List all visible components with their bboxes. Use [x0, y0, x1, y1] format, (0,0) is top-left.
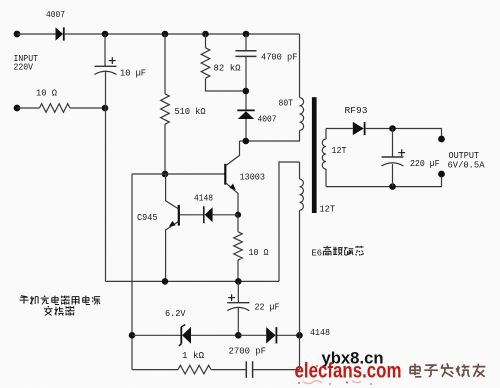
wire top rail to R3	[205, 34, 207, 48]
svg-text:22 µF: 22 µF	[255, 302, 280, 313]
label caption 手机充电器用电源 变换器	[20, 296, 101, 316]
wire R4 top lead	[237, 215, 239, 232]
wire top rail left segment	[17, 33, 56, 35]
svg-text:4148: 4148	[310, 327, 330, 338]
label 4700 pF (C2)	[261, 52, 298, 63]
svg-text:4007: 4007	[258, 114, 277, 125]
wire top-right corner down to primary	[299, 34, 301, 98]
svg-text:2700 pF: 2700 pF	[229, 346, 267, 357]
resistor R4 10 ohm emitter sense	[234, 232, 243, 260]
label 13003 (Q1)	[240, 172, 266, 183]
svg-text:10 µF: 10 µF	[120, 68, 146, 79]
svg-text:10 Ω: 10 Ω	[249, 247, 269, 258]
wire secondary bottom lead	[325, 169, 327, 187]
wire feedback winding top lead	[299, 162, 301, 179]
wire D2 to collector node	[245, 119, 247, 141]
core T1 ferrite bar	[312, 97, 317, 213]
label INPUT 220V	[14, 53, 39, 73]
wire base wire to Q1	[132, 173, 225, 175]
wire feedback winding bottom lead	[299, 210, 301, 335]
diode D4 1N4148 base clamp	[204, 206, 213, 223]
watermark 电子发烧友	[410, 363, 485, 377]
wire D3 to output top corner	[365, 129, 442, 140]
node junction C945 emitter on rail	[162, 278, 169, 285]
node junction C5 top	[389, 125, 396, 132]
transistor Q1 13003 switch	[225, 141, 239, 215]
label 1 kΩ (R5)	[182, 350, 204, 361]
label 4148 (D4)	[194, 193, 213, 204]
resistor R5 1k feedback	[178, 365, 211, 374]
label RF93 (D3)	[345, 105, 368, 116]
svg-text:E6: E6	[312, 248, 323, 259]
capacitor C2 4700pF snubber	[236, 51, 257, 57]
wire feedback column	[299, 335, 301, 369]
svg-text:elecfans.com: elecfans.com	[295, 359, 402, 383]
wire primary bottom to corner	[299, 130, 301, 141]
transistor Q2 C945 regulator	[166, 174, 179, 281]
svg-text:4007: 4007	[46, 9, 65, 20]
svg-text:6V/0.5A: 6V/0.5A	[448, 160, 485, 171]
svg-text:220V: 220V	[14, 62, 34, 73]
winding T1 feedback 12T	[300, 179, 304, 210]
capacitor C4 2700pF feedback	[246, 361, 252, 378]
node junction top rail at R2 column	[162, 31, 169, 38]
wire top rail to R2	[164, 34, 166, 94]
wire branch down-left corner to R5	[132, 369, 178, 371]
watermark ybx8.cn	[322, 350, 384, 368]
svg-text:80T: 80T	[279, 98, 294, 109]
wire C3 node to D5	[238, 334, 266, 336]
wire D4 to Q2 base	[180, 214, 203, 216]
wire R2 to base node	[164, 124, 166, 174]
wire top rail from D1 to top-right corner	[64, 33, 300, 35]
label 80T	[279, 98, 294, 109]
diode D2 1N4007 clamp	[237, 110, 254, 119]
wire C1 column upper	[104, 34, 106, 66]
wire secondary top to D3	[326, 128, 353, 130]
wire C1 column down to common rail	[105, 72, 107, 282]
node output terminal minus	[438, 171, 445, 178]
wire R5 to C4	[211, 369, 246, 371]
watermark elecfans.com	[295, 359, 402, 383]
wire C3 to zener rail	[237, 308, 239, 336]
svg-text:1 kΩ: 1 kΩ	[182, 350, 204, 361]
wire rail to C3	[237, 281, 239, 302]
node junction R1 / C1 column	[102, 105, 109, 112]
wire input bottom lead	[17, 107, 40, 109]
svg-text:4700 pF: 4700 pF	[261, 52, 298, 63]
wire common rail up to feedback winding top	[279, 162, 300, 281]
label OUTPUT 6V/0.5A	[448, 150, 485, 171]
winding T1 primary 80T	[300, 98, 304, 131]
label 10 Ω (R4)	[249, 247, 269, 258]
wire base node down to feedback network	[131, 174, 133, 370]
node input terminal bottom	[14, 105, 21, 112]
svg-text:10 Ω: 10 Ω	[36, 88, 57, 99]
node output terminal plus	[438, 136, 445, 143]
label + polarity of C3	[228, 294, 235, 301]
wire secondary bottom rail	[326, 174, 442, 187]
label + polarity of C5	[398, 149, 405, 156]
label 22 µF (C3)	[255, 302, 280, 313]
node junction collector node	[243, 138, 250, 145]
node junction base node	[162, 171, 169, 178]
label 2700 pF (C4)	[229, 346, 267, 357]
node input terminal top	[14, 31, 21, 38]
label 4148 (D5)	[310, 327, 330, 338]
node junction feedback winding node	[296, 332, 303, 339]
capacitor C5 220uF output filter	[382, 129, 404, 187]
svg-text:6.2V: 6.2V	[165, 308, 186, 319]
diode D1 1N4007 input rectifier	[56, 27, 64, 40]
wire collector node to primary winding bottom	[240, 140, 300, 142]
label E6 core 高频磁芯	[312, 246, 364, 259]
label 4007 (D2)	[258, 114, 277, 125]
svg-text:RF93: RF93	[345, 105, 368, 116]
wire C4 to right corner	[253, 369, 300, 371]
label + polarity of C1	[109, 57, 116, 64]
wire R3 bottom to snubber node	[206, 78, 246, 91]
label 6.2V (ZD1)	[165, 308, 186, 319]
winding T1 secondary 12T	[322, 139, 326, 169]
watermark flourish	[298, 365, 391, 385]
resistor R1 10 ohm fusible	[40, 104, 71, 113]
svg-text:510 kΩ: 510 kΩ	[175, 106, 206, 117]
node junction C3 bottom on zener rail	[235, 332, 242, 339]
wire common emitter rail	[106, 280, 280, 282]
wire emitter node wire to D4	[213, 214, 238, 216]
label C945 (Q2)	[137, 212, 158, 223]
label 82 kΩ (R3)	[214, 63, 241, 74]
resistor R3 82k snubber	[201, 48, 210, 78]
svg-text:220 µF: 220 µF	[410, 158, 440, 169]
node junction snubber node	[243, 88, 250, 95]
label 4007 (D1)	[46, 9, 65, 20]
capacitor C3 22uF	[227, 303, 249, 311]
label 220 µF (C5)	[410, 158, 440, 169]
svg-text:13003: 13003	[240, 172, 266, 183]
capacitor C1 10uF electrolytic	[95, 66, 117, 74]
node junction R4/C3 on rail	[235, 278, 242, 285]
node junction top rail at C2 column	[243, 31, 250, 38]
node junction C5 bottom	[389, 183, 396, 190]
svg-text:C945: C945	[137, 212, 158, 223]
label 510 kΩ (R2)	[175, 106, 206, 117]
wire D5 to feedback winding node	[276, 334, 299, 336]
svg-text:12T: 12T	[320, 204, 336, 215]
diode ZD1 6.2V zener	[179, 325, 191, 346]
wire zener rail left segment	[132, 334, 181, 336]
resistor R2 510k startup	[161, 94, 170, 124]
wire from R1 to bulk cap column	[70, 107, 105, 109]
label 10 Ω (R1)	[36, 88, 57, 99]
label 12T feedback	[320, 204, 336, 215]
wire secondary top lead	[325, 129, 327, 140]
node junction zener rail left	[129, 332, 136, 339]
svg-text:4148: 4148	[194, 193, 213, 204]
wire top rail to C2	[245, 34, 247, 51]
label 10 µF (C1)	[120, 68, 146, 79]
svg-text:12T: 12T	[332, 145, 347, 156]
wire zener to C3 bottom node	[191, 334, 238, 336]
node junction top rail at C1 column	[102, 31, 109, 38]
node junction top rail at R3 column	[202, 31, 209, 38]
label 12T secondary	[332, 145, 347, 156]
wire C2 to snubber node	[245, 56, 247, 109]
node junction Q1 emitter node	[235, 212, 241, 218]
wire R4 bottom lead	[237, 260, 239, 281]
diode D5 1N4148 feedback	[266, 327, 276, 343]
diode D3 RF93 output rectifier	[353, 122, 365, 135]
svg-text:82 kΩ: 82 kΩ	[214, 63, 241, 74]
